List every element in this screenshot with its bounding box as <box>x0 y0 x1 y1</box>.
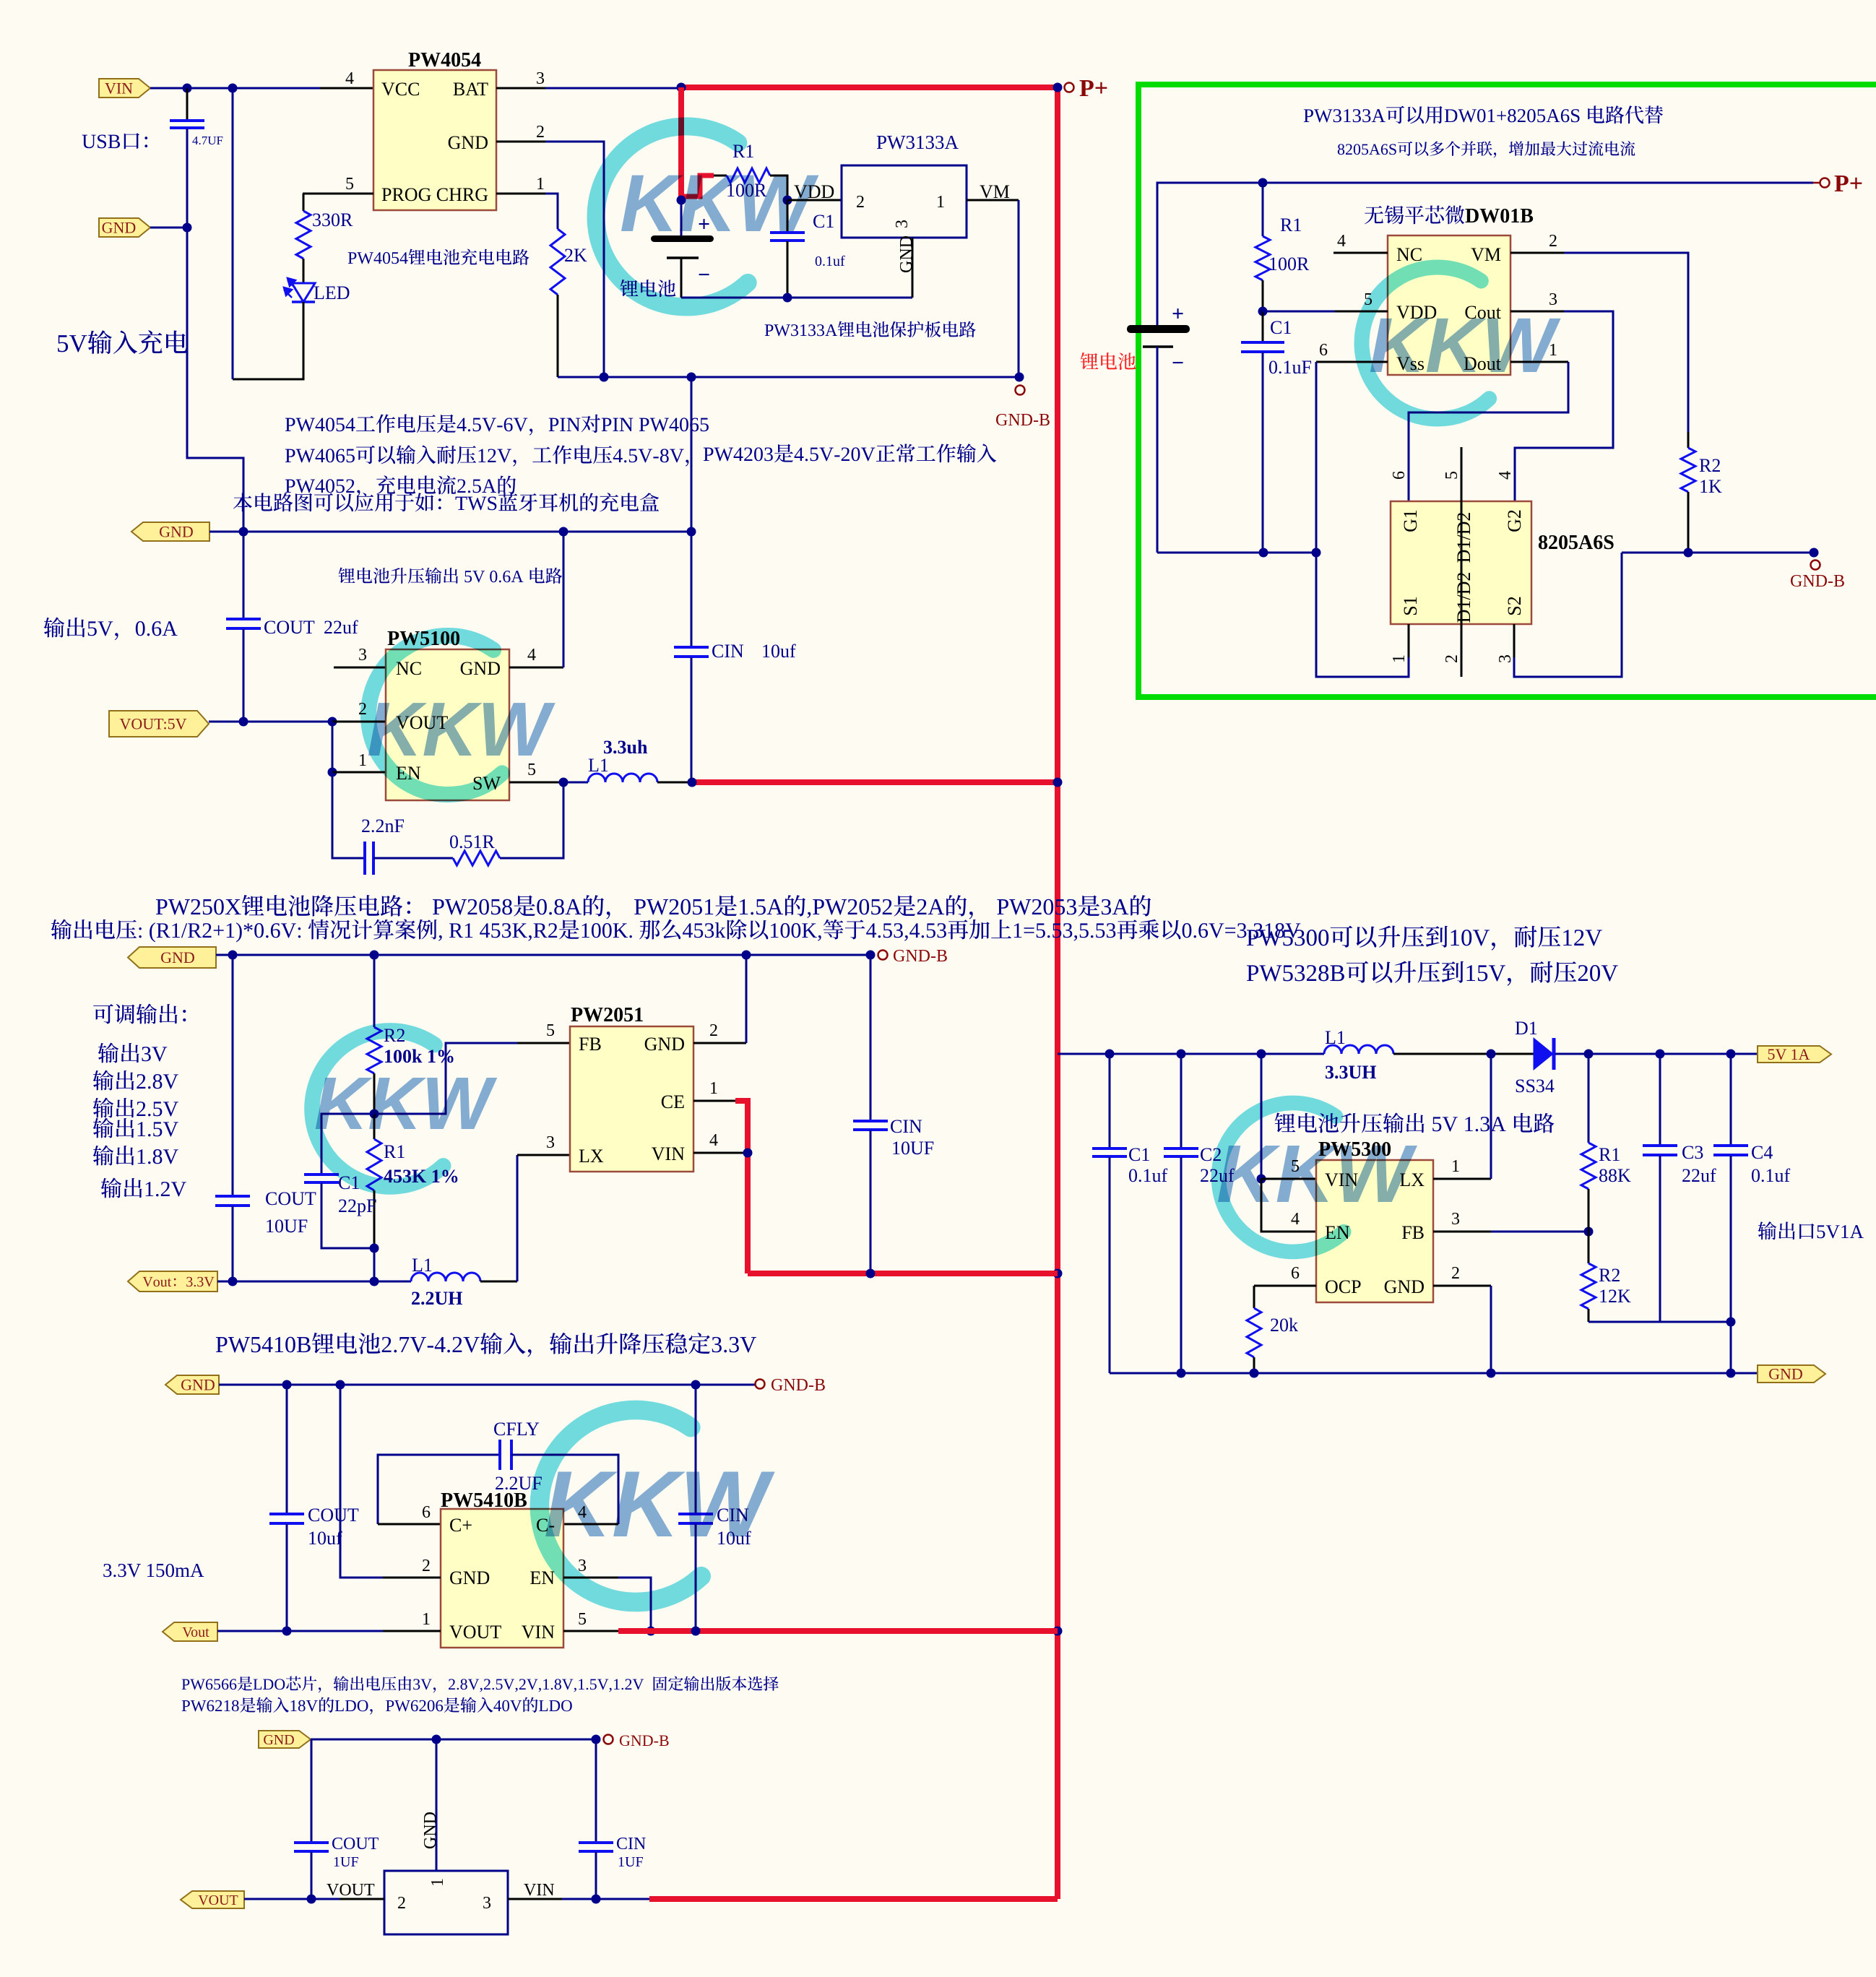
svg-text:S1: S1 <box>1400 596 1421 615</box>
wire red CE to VIN rail <box>735 1101 748 1273</box>
wire CHRG to resistor 2K <box>545 194 558 229</box>
junction R1 bottom <box>370 1244 379 1253</box>
wire GND bus LDO <box>311 1739 596 1741</box>
svg-text:3.3V 150mA: 3.3V 150mA <box>103 1559 204 1581</box>
junction rail boost <box>1053 778 1063 787</box>
svg-text:2: 2 <box>1549 232 1557 251</box>
svg-text:D1/D2: D1/D2 <box>1453 572 1474 623</box>
junction VDD node green <box>1258 307 1268 316</box>
IC U7 PW5410B <box>441 1509 563 1648</box>
net label Vout (5410) <box>163 1622 217 1641</box>
junction Vss bottom node <box>1312 548 1321 558</box>
wire VOUT net <box>209 721 332 723</box>
watermark KKW 6 <box>540 1410 701 1602</box>
pin stub C+ pin 6 <box>378 1523 441 1526</box>
svg-text:1: 1 <box>1390 654 1409 663</box>
text PW5300 note 1 <box>1247 926 1602 951</box>
svg-text:CE: CE <box>661 1091 685 1112</box>
svg-text:Vout: Vout <box>182 1625 209 1640</box>
watermark KKW 1 <box>596 126 748 307</box>
junction R1 top 5300 <box>1584 1050 1594 1059</box>
pin stub LX pin 1 (5300) <box>1433 1178 1491 1180</box>
pin stub VOUT pin 1 (5410) <box>383 1630 441 1632</box>
wire lower GND link <box>558 376 1019 378</box>
svg-text:2: 2 <box>856 193 865 212</box>
svg-text:1UF: 1UF <box>618 1854 644 1870</box>
capacitor CIN 1UF (LDO) <box>595 1739 597 1842</box>
resistor 330R <box>296 211 311 259</box>
svg-text:0.1uf: 0.1uf <box>1751 1165 1791 1186</box>
svg-text:VM: VM <box>1471 244 1501 265</box>
wire S2 to GND-B bus <box>1514 553 1622 677</box>
wire VM down to GND-B <box>1018 200 1020 377</box>
capacitor C1 0.1uf <box>787 200 789 232</box>
wire GND bus buck <box>216 954 870 956</box>
junction battery top <box>677 196 686 205</box>
svg-text:GND: GND <box>448 132 488 153</box>
resistor R1 100R <box>714 175 727 177</box>
wire Vout bus buck <box>217 1281 411 1283</box>
IC U4 PW5100 <box>386 649 509 800</box>
wire GND bus boost <box>209 531 691 533</box>
svg-text:GND: GND <box>263 1732 294 1748</box>
junction 20k bottom <box>1250 1369 1259 1378</box>
svg-text:2: 2 <box>536 123 545 142</box>
net label GND (USB) <box>99 218 150 237</box>
wire red boost output link <box>692 779 1058 785</box>
watermark KKW 4 <box>312 1031 444 1187</box>
wire red VIN LDO <box>649 1896 1058 1902</box>
wire red P+ rail top <box>681 85 1058 90</box>
pin stub Cout pin 3 <box>1510 311 1564 313</box>
junction C3 top <box>1656 1050 1665 1059</box>
svg-text:VIN: VIN <box>522 1622 555 1643</box>
wire GND pin up buck <box>745 955 748 1043</box>
svg-text:5: 5 <box>546 1021 555 1040</box>
pin stub OCP pin 6 <box>1254 1285 1316 1287</box>
text PW250X note line 2 <box>51 920 1301 943</box>
wire GND bus 5410 <box>219 1384 755 1386</box>
svg-text:1: 1 <box>536 175 545 194</box>
junction FB node 5300 <box>1584 1227 1594 1237</box>
svg-text:5: 5 <box>578 1610 587 1629</box>
text note line 2 <box>285 445 689 466</box>
junction GND/CIN <box>687 527 696 537</box>
pin stub GND pin 2 <box>496 141 545 143</box>
diode D1 SS34 <box>1534 1038 1553 1070</box>
svg-text:3: 3 <box>358 646 367 665</box>
junction R2 bottom <box>1684 548 1693 558</box>
wire GND pin down <box>545 142 604 377</box>
svg-text:10UF: 10UF <box>891 1138 934 1159</box>
capacitor CIN 10UF (buck) <box>870 955 872 1120</box>
junction C4 bottom <box>1726 1369 1736 1378</box>
text PW3133A protection circuit <box>765 321 976 337</box>
svg-text:1: 1 <box>1451 1157 1460 1176</box>
junction Vout/COUT buck <box>228 1277 238 1286</box>
pin stub VM pin 1 <box>967 199 1019 202</box>
svg-text:GND: GND <box>644 1034 685 1055</box>
svg-text:3: 3 <box>536 69 545 88</box>
svg-text:GND: GND <box>181 1376 215 1394</box>
pin stub GND pin 2 (5300) <box>1433 1285 1491 1287</box>
pin stub VDD pin 2 <box>787 199 842 202</box>
wire FB net 5300 <box>1491 1231 1588 1233</box>
pin stub Vss pin 6 <box>1316 361 1388 363</box>
wire VIN link LDO <box>562 1898 649 1900</box>
wire EN branch 5300 <box>1261 1179 1316 1232</box>
IC U6 PW5300 <box>1316 1160 1433 1302</box>
resistor R1 453K 1% <box>373 1114 376 1139</box>
svg-text:1: 1 <box>936 193 945 212</box>
svg-text:GND: GND <box>460 658 501 679</box>
text PW5410B note <box>216 1333 756 1357</box>
junction SW node <box>559 778 569 787</box>
svg-text:KKW: KKW <box>1369 301 1561 389</box>
svg-text:GND-B: GND-B <box>995 411 1050 430</box>
svg-text:2: 2 <box>1451 1264 1460 1283</box>
svg-text:CFLY: CFLY <box>493 1419 540 1440</box>
svg-text:GND: GND <box>1384 1276 1425 1297</box>
inductor L1 3.3uh <box>563 782 588 784</box>
text note line 3 <box>285 475 516 496</box>
svg-text:330R: 330R <box>312 209 353 230</box>
svg-text:22uf: 22uf <box>324 617 358 638</box>
wire PROG down <box>303 194 305 211</box>
text boost output note <box>339 568 563 584</box>
svg-text:L1: L1 <box>588 755 609 776</box>
text adjustable outputs <box>93 1004 186 1024</box>
svg-text:R1: R1 <box>1599 1144 1620 1165</box>
pin stub CHRG pin 1 <box>496 193 545 195</box>
terminal P+ right <box>1820 178 1830 188</box>
junction VOUT/COUT <box>239 717 248 727</box>
svg-text:GND-B: GND-B <box>771 1376 826 1395</box>
svg-text:1: 1 <box>358 751 367 770</box>
svg-text:GND: GND <box>421 1812 440 1849</box>
capacitor C1 0.1uF (green box) <box>1262 311 1264 342</box>
capacitor C1 22pF <box>321 1114 374 1174</box>
junction VIN top 5300 <box>1257 1050 1266 1059</box>
junction GND link at 836 <box>600 373 609 382</box>
IC U2 PW3133A <box>842 165 967 238</box>
wire GND bus 5300 <box>1110 1372 1758 1375</box>
svg-text:D1/D2: D1/D2 <box>1453 512 1474 563</box>
capacitor 4.7UF <box>186 88 189 120</box>
wire RC to SW <box>500 782 563 858</box>
svg-text:C+: C+ <box>449 1515 472 1536</box>
junction CIN bottom buck <box>866 1269 876 1279</box>
svg-text:3.3UH: 3.3UH <box>1325 1062 1377 1083</box>
svg-text:C3: C3 <box>1682 1142 1703 1163</box>
wire Dout to G1 <box>1409 362 1568 501</box>
junction C2 bottom <box>1177 1369 1186 1378</box>
net label GND (boost) <box>131 522 209 541</box>
resistor 2K <box>550 229 565 295</box>
wire D1/D2 shared drain line pin 5 <box>1461 447 1463 677</box>
svg-text:GND: GND <box>897 235 916 273</box>
wire 2K to GND bus <box>557 295 559 377</box>
battery B1 lithium cell <box>680 200 683 237</box>
svg-text:3: 3 <box>1451 1210 1460 1229</box>
capacitor C1 0.1uf (5300) <box>1109 1054 1111 1148</box>
svg-text:VOUT: VOUT <box>327 1881 375 1900</box>
text note line 4 <box>233 493 659 511</box>
junction VOUT/COUT LDO <box>307 1895 316 1904</box>
svg-text:KKW: KKW <box>367 687 556 772</box>
wire compensation RC <box>332 772 365 858</box>
capacitor COUT 10uf (5410) <box>286 1385 288 1513</box>
wire FB net <box>374 1043 517 1114</box>
terminal GND-B (LDO) <box>604 1735 613 1744</box>
wire boost input net <box>1058 1053 1324 1055</box>
svg-text:CHRG: CHRG <box>436 184 488 205</box>
resistor R2 12K <box>1588 1232 1590 1263</box>
wire GND pin to bus 5410 <box>340 1385 383 1578</box>
text boost 1.3A note <box>1275 1113 1555 1133</box>
text PW250X note line 1 <box>156 895 1151 920</box>
svg-text:GND-B: GND-B <box>1790 572 1845 591</box>
junction GND pin top 5410 <box>336 1380 345 1390</box>
svg-text:2K: 2K <box>564 245 587 266</box>
text output 5V 0.6A <box>44 618 178 641</box>
svg-text:5: 5 <box>345 175 354 194</box>
watermark KKW 2 <box>1362 267 1490 419</box>
svg-text:3: 3 <box>893 220 912 228</box>
net label GND (LDO) <box>259 1731 311 1748</box>
junction GND pin4 branch <box>559 527 569 537</box>
wire 330R to LED <box>303 259 305 283</box>
svg-text:2: 2 <box>709 1021 718 1040</box>
text DW01 replacement note <box>1304 105 1663 124</box>
resistor 0.51R <box>453 851 500 865</box>
svg-text:1UF: 1UF <box>333 1854 359 1870</box>
svg-text:S2: S2 <box>1504 596 1525 615</box>
junction VOUT/EN <box>328 717 337 727</box>
svg-text:VIN: VIN <box>105 79 133 98</box>
pin stub VOUT pin 2 <box>332 721 386 723</box>
svg-text:2: 2 <box>397 1894 406 1913</box>
resistor R2 100k 1% <box>373 955 376 1027</box>
svg-text:4: 4 <box>345 69 354 88</box>
svg-text:GND-B: GND-B <box>893 947 948 966</box>
svg-text:6: 6 <box>1291 1264 1300 1283</box>
junction R1 top <box>1258 178 1268 188</box>
wire Vout net 5410 <box>217 1630 383 1632</box>
svg-text:LED: LED <box>314 282 350 303</box>
green highlight box <box>1138 85 1876 697</box>
pin stub S1 pin 1 <box>1408 624 1410 657</box>
IC U3 DW01B <box>1388 235 1510 375</box>
junction C1 bottom <box>783 293 792 303</box>
capacitor C2 22uf (5300) <box>1180 1054 1183 1148</box>
junction EN <box>328 768 337 777</box>
pin stub LX pin 3 <box>517 1154 570 1156</box>
net label VOUT (LDO) <box>181 1891 244 1908</box>
svg-text:CIN: CIN <box>890 1116 922 1137</box>
capacitor COUT 10UF (buck) <box>232 955 234 1195</box>
wire CIN top link from PW4054 GND net <box>691 377 693 532</box>
junction VIN red buck <box>743 1148 753 1158</box>
svg-text:FB: FB <box>579 1034 602 1055</box>
wire GND label to cap <box>150 227 187 229</box>
svg-text:VOUT: VOUT <box>449 1622 501 1643</box>
wire battery minus bus <box>1157 552 1316 554</box>
svg-text:6: 6 <box>1390 471 1409 480</box>
svg-text:R1: R1 <box>1280 215 1302 235</box>
junction GND/COUT <box>239 527 248 537</box>
svg-text:2: 2 <box>1443 654 1461 663</box>
wire GND-B bus right <box>1622 552 1814 554</box>
net label Vout:3.3V <box>128 1271 217 1292</box>
svg-text:KKW: KKW <box>314 1062 498 1145</box>
wire red VIN horizontal <box>748 1271 1058 1276</box>
junction BAT/P+ red <box>677 83 686 92</box>
wire red VIN 5410 <box>618 1628 1058 1634</box>
svg-text:1: 1 <box>428 1878 447 1887</box>
svg-text:P+: P+ <box>1079 75 1108 102</box>
LED D-LED <box>292 283 315 302</box>
svg-text:0.1uf: 0.1uf <box>1128 1165 1168 1186</box>
net label 5V 1A <box>1758 1046 1831 1063</box>
capacitor CIN 10uf (5410) <box>695 1385 697 1513</box>
svg-text:3: 3 <box>1496 654 1515 663</box>
svg-text:VCC: VCC <box>381 79 420 100</box>
pin stub VCC pin 4 <box>320 87 373 90</box>
text USB port <box>82 133 148 149</box>
svg-text:1K: 1K <box>1699 476 1722 497</box>
capacitor 2.2nF <box>363 842 366 875</box>
junction VIN/CIN LDO <box>592 1895 601 1904</box>
wire P+ top net <box>1157 183 1813 325</box>
pin stub VIN pin 5 (5300) <box>1261 1178 1316 1180</box>
wire EN to VIN net <box>618 1578 651 1631</box>
svg-text:VOUT: VOUT <box>198 1892 238 1908</box>
svg-text:COUT: COUT <box>264 617 315 638</box>
svg-text:1: 1 <box>709 1079 718 1098</box>
wire diode to output <box>1555 1053 1758 1055</box>
junction GND-B node <box>1015 373 1024 382</box>
pin 3 GND of PW3133A <box>912 238 914 298</box>
pin stub Dout pin 1 <box>1510 361 1568 363</box>
junction GND pin2 buck <box>742 951 751 960</box>
junction C2 top 5300 <box>1177 1050 1186 1059</box>
junction GND pin bottom 5300 <box>1487 1369 1496 1378</box>
svg-text:GND: GND <box>1768 1365 1803 1383</box>
svg-text:22pF: 22pF <box>338 1195 376 1216</box>
wire left vertical down to lower circuit <box>187 228 243 532</box>
svg-text:10UF: 10UF <box>265 1216 308 1237</box>
junction VDD node <box>783 196 792 205</box>
terminal P+ top <box>1065 83 1074 92</box>
svg-text:PW5410B: PW5410B <box>441 1489 527 1512</box>
svg-text:C1: C1 <box>1270 317 1292 338</box>
svg-text:−: − <box>698 263 710 287</box>
junction CIN top LDO <box>592 1735 601 1744</box>
wire VIN branch 5300 <box>1261 1054 1263 1179</box>
net label GND (5410) <box>165 1375 219 1394</box>
text PW4054 charging circuit <box>348 249 529 265</box>
svg-text:CIN: CIN <box>712 641 744 662</box>
IC U5 PW2051 <box>570 1026 693 1172</box>
svg-text:3: 3 <box>546 1133 555 1152</box>
svg-text:4: 4 <box>709 1131 718 1150</box>
pin stub VDD pin 5 <box>1263 311 1335 313</box>
svg-text:4: 4 <box>1496 471 1515 480</box>
svg-text:BAT: BAT <box>453 79 488 100</box>
junction on VIN at C-4.7UF <box>183 84 192 93</box>
net label GND (5300) <box>1758 1365 1825 1383</box>
pin stub GND pin 4 <box>509 667 563 669</box>
wire GND pin up to bus <box>563 532 565 667</box>
junction C1 bottom green <box>1259 548 1268 558</box>
svg-text:PROG: PROG <box>381 184 431 205</box>
svg-text:VIN: VIN <box>524 1881 555 1900</box>
text PW6566 note line 1 <box>182 1676 779 1692</box>
svg-text:6: 6 <box>1319 341 1328 360</box>
text 8205A6S parallel note <box>1338 141 1635 157</box>
watermark KKW 5 <box>1219 1103 1344 1252</box>
svg-text:CIN: CIN <box>616 1835 646 1853</box>
pin stub EN pin 1 <box>332 771 386 774</box>
battery B2 lithium cell <box>1127 325 1190 333</box>
junction C4 top <box>1726 1050 1736 1059</box>
svg-text:4: 4 <box>527 646 536 665</box>
wire GND pin LDO <box>436 1739 438 1871</box>
resistor 20k <box>1253 1286 1255 1308</box>
svg-text:GND: GND <box>160 948 195 966</box>
pin stub GND pin 2 (5410) <box>383 1577 441 1579</box>
pin stub SW pin 5 <box>509 782 563 784</box>
junction C1 top 5300 <box>1105 1050 1115 1059</box>
svg-text:10uf: 10uf <box>308 1528 342 1549</box>
svg-text:5V 1A: 5V 1A <box>1768 1045 1810 1063</box>
pin stub FB pin 5 <box>517 1042 570 1044</box>
svg-text:G1: G1 <box>1400 509 1421 532</box>
wire VM to R2 <box>1564 253 1688 432</box>
junction FB node <box>370 1109 379 1119</box>
wire VIN to VCC <box>150 87 320 90</box>
text PW4203 note <box>704 444 996 462</box>
svg-text:0.1uf: 0.1uf <box>815 254 845 269</box>
junction Vout/R1 <box>370 1277 379 1286</box>
svg-text:PW3133A: PW3133A <box>876 131 959 153</box>
pin stub VOUT LDO <box>340 1898 384 1900</box>
svg-text:3: 3 <box>483 1894 491 1913</box>
svg-text:2: 2 <box>422 1557 431 1575</box>
svg-text:COUT: COUT <box>332 1835 379 1853</box>
junction GND/cap <box>183 223 192 233</box>
junction GND/COUT buck <box>228 951 238 960</box>
net label VIN <box>99 79 150 98</box>
pin stub S2 pin 3 <box>1513 624 1516 657</box>
terminal GND-B (PW3133A) <box>1016 386 1025 395</box>
junction LX top <box>1487 1050 1496 1059</box>
junction GND pin LDO <box>432 1735 441 1744</box>
svg-text:100R: 100R <box>1268 254 1310 274</box>
svg-text:4: 4 <box>1337 232 1346 251</box>
wire red battery branch <box>678 87 684 198</box>
pin stub VM pin 2 <box>1510 252 1564 254</box>
wire red jog to R1 <box>681 176 714 196</box>
pin stub NC pin 3 <box>334 667 386 669</box>
pin stub VIN LDO <box>508 1898 562 1900</box>
pin stub VIN pin 4 buck <box>693 1152 744 1154</box>
svg-text:R2: R2 <box>1699 455 1721 476</box>
svg-text:COUT: COUT <box>265 1188 316 1209</box>
wire LED down and left <box>233 302 303 379</box>
svg-text:D1: D1 <box>1515 1018 1538 1039</box>
